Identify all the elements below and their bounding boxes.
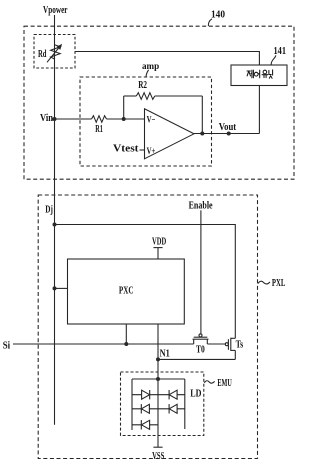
wire PXC leg to N1: [157, 324, 159, 359]
svg-text:Enable: Enable: [189, 200, 213, 212]
svg-text:T0: T0: [196, 344, 205, 356]
diode D3 row2 left (points left): [141, 404, 149, 413]
wire Dj branch to Ts: [55, 225, 236, 339]
wire N1 down to EMU and VSS: [157, 359, 159, 447]
box EMU dashed border: [121, 372, 204, 436]
svg-text:VSS: VSS: [152, 450, 164, 462]
box PXL dashed border: [38, 195, 257, 459]
junction dot output: [200, 132, 204, 136]
op-amp U1 triangle: [145, 109, 195, 159]
transistor Ts: [225, 338, 235, 360]
wire op-amp output: [194, 133, 259, 135]
diode D1 row1 left (points right): [142, 390, 150, 399]
wire LD left rail: [131, 379, 133, 430]
svg-text:PXC: PXC: [119, 284, 134, 296]
wire VDD to PXC: [157, 248, 159, 259]
text control unit (Korean) drawn as strokes: [247, 70, 273, 78]
wire Vout up to 141: [258, 86, 260, 134]
svg-text:Vtest: Vtest: [113, 142, 139, 154]
wire Rd box to control unit 141: [75, 52, 259, 66]
leader tilde for PXL: [258, 281, 270, 284]
box PXC: [68, 259, 185, 324]
svg-text:PXL: PXL: [272, 277, 285, 289]
junction dot N1: [156, 357, 160, 361]
transistor T0: [193, 334, 209, 344]
diode D5 row3 left (points left): [141, 420, 149, 429]
wire N1 row to Ts: [158, 358, 235, 360]
wire Enable vertical: [200, 210, 202, 334]
junction dot PXC-Si: [124, 342, 128, 346]
wire LD top rail: [132, 378, 185, 380]
wire Vpower/Dj vertical line: [54, 15, 56, 425]
svg-text:Dj: Dj: [45, 204, 53, 216]
leader line for 141: [271, 55, 276, 64]
leader tilde for EMU: [204, 381, 214, 383]
resistor R2: [136, 93, 155, 100]
wire feedback top right: [155, 95, 203, 97]
wire feedback top left: [124, 95, 137, 97]
junction dot LD top: [156, 377, 160, 381]
junction dot Vout: [227, 132, 231, 136]
diode D2 row1 right (points left): [169, 390, 177, 399]
wire LD right rail: [184, 379, 186, 429]
svg-text:VDD: VDD: [152, 236, 166, 248]
svg-text:LD: LD: [190, 388, 201, 400]
svg-text:R1: R1: [95, 123, 103, 135]
wire Vin to R1: [55, 118, 92, 120]
box Rd dashed border: [34, 35, 75, 69]
wire Dj to PXC: [55, 287, 68, 289]
svg-text:V−: V−: [147, 116, 156, 126]
svg-text:Ts: Ts: [236, 339, 244, 351]
leader line for 140: [208, 19, 212, 26]
wire feedback right vertical: [201, 96, 203, 134]
wire Si row right (T0 to Ts gate): [207, 343, 225, 345]
wire Vtest to V+: [140, 149, 145, 151]
svg-text:Vin: Vin: [40, 112, 53, 124]
wire LD row1: [132, 394, 185, 396]
svg-text:EMU: EMU: [217, 377, 231, 389]
junction dot Vin: [53, 117, 57, 121]
svg-text:140: 140: [211, 10, 225, 21]
box 140 dashed border: [24, 26, 294, 179]
junction dot feedback: [122, 117, 126, 121]
svg-text:R2: R2: [138, 79, 147, 91]
wire LD row2: [132, 408, 185, 410]
leader line for amp: [146, 70, 149, 77]
wire Si row left: [13, 343, 194, 345]
junction dot Dj branch: [53, 223, 57, 227]
diode D4 row2 right (points left): [169, 404, 177, 413]
resistor R1: [92, 116, 107, 123]
junction dot Dj to PXC: [53, 286, 57, 290]
svg-text:Rd: Rd: [38, 48, 47, 60]
box amp dashed border: [80, 77, 212, 166]
svg-text:V+: V+: [147, 147, 156, 157]
svg-text:Vpower: Vpower: [43, 5, 68, 16]
box 141 control unit: [231, 65, 287, 86]
wire PXC leg to Si row: [125, 324, 127, 344]
terminal bar VSS: [153, 446, 162, 448]
svg-text:amp: amp: [142, 61, 160, 72]
resistor Rd variable (zigzag): [51, 45, 61, 59]
wire R1 to op-amp V-: [107, 118, 145, 120]
wire feedback left vertical: [123, 96, 125, 119]
svg-text:Si: Si: [3, 340, 10, 352]
svg-text:Vout: Vout: [219, 121, 237, 133]
resistor Rd arrow: [47, 47, 59, 62]
wire LD row3: [132, 424, 158, 426]
svg-text:N1: N1: [160, 348, 170, 360]
terminal bar VDD: [153, 247, 162, 249]
